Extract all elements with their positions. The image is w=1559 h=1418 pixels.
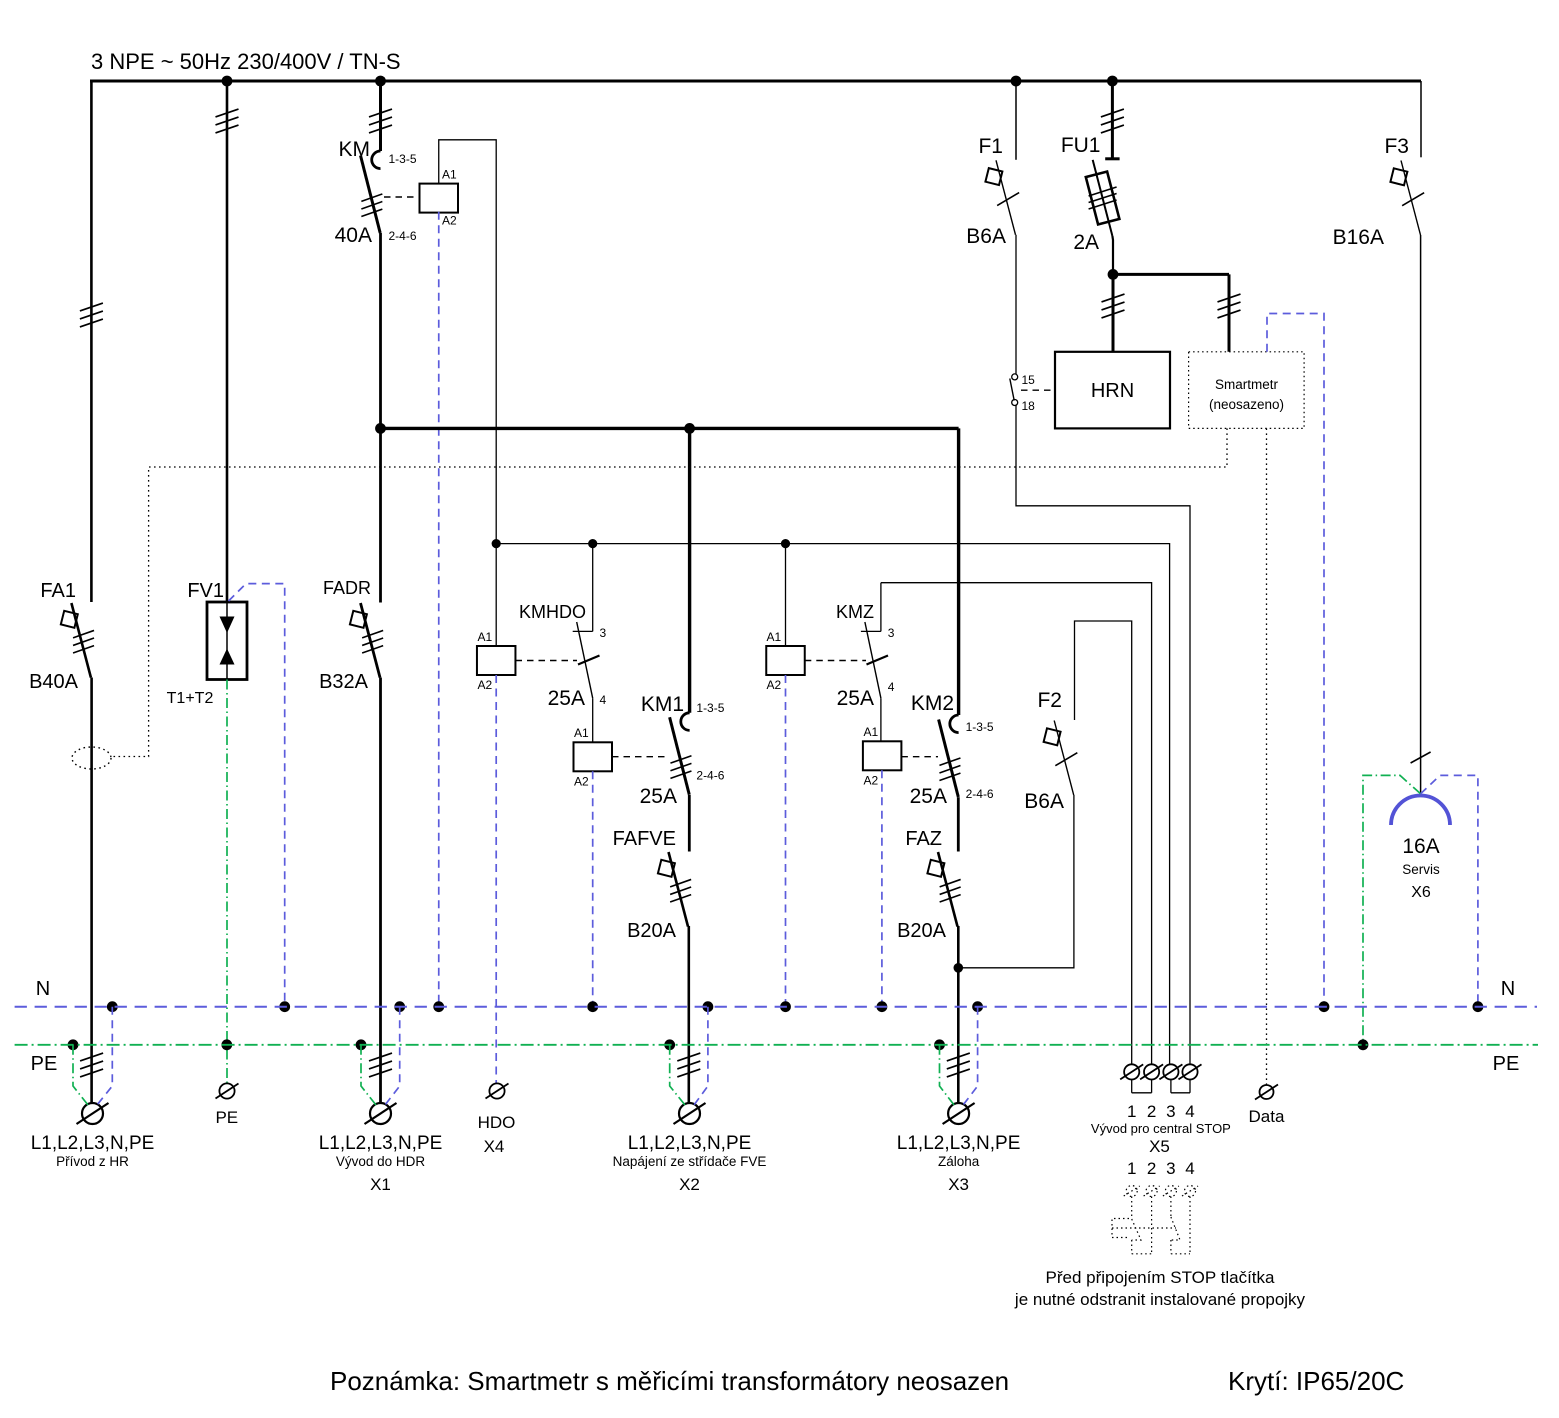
breaker FAZ bbox=[927, 852, 960, 927]
svg-text:PE: PE bbox=[215, 1108, 238, 1127]
svg-text:2-4-6: 2-4-6 bbox=[966, 787, 994, 801]
svg-text:X6: X6 bbox=[1411, 884, 1431, 901]
wire N/PE drops to X2 bbox=[664, 1001, 713, 1105]
svg-text:X1: X1 bbox=[370, 1175, 391, 1194]
label 2-4-6 (KM2) bbox=[966, 787, 994, 801]
label L1,L2,L3,N,PE (input) bbox=[31, 1133, 155, 1154]
label FAFVE bbox=[613, 828, 676, 850]
wire F1 feed bbox=[1015, 81, 1017, 160]
svg-text:FV1: FV1 bbox=[187, 580, 224, 602]
wire KM lower / FADR feed bbox=[379, 233, 382, 603]
svg-text:KMHDO: KMHDO bbox=[519, 602, 586, 622]
label FU1 bbox=[1061, 134, 1101, 157]
svg-text:B6A: B6A bbox=[1024, 790, 1064, 813]
label 4 (KMZ) bbox=[888, 680, 895, 694]
svg-text:16A: 16A bbox=[1402, 835, 1439, 858]
wire FU1 feed bbox=[1101, 81, 1124, 159]
breaker FADR bbox=[350, 603, 383, 678]
node FV1 N junction bbox=[279, 1001, 290, 1012]
contactor KM1 main contact bbox=[670, 713, 692, 795]
label X6 bbox=[1411, 884, 1431, 901]
svg-text:N: N bbox=[36, 978, 50, 1000]
svg-text:Napájení ze střídače FVE: Napájení ze střídače FVE bbox=[613, 1154, 767, 1169]
svg-text:F3: F3 bbox=[1384, 135, 1409, 158]
label X4 bbox=[484, 1137, 505, 1156]
svg-text:Záloha: Záloha bbox=[938, 1154, 980, 1169]
label F3 bbox=[1384, 135, 1409, 158]
coil KM bbox=[420, 184, 459, 213]
svg-text:X2: X2 bbox=[679, 1175, 700, 1194]
bus N (dashed) bbox=[15, 1006, 1537, 1008]
wire HRN/Smartmetr feeds bbox=[1102, 274, 1241, 351]
wire FADR lower bbox=[369, 678, 392, 1104]
svg-text:Před připojením STOP tlačítka: Před připojením STOP tlačítka bbox=[1046, 1268, 1276, 1287]
wire Smartmetr N link bbox=[1267, 314, 1324, 1007]
svg-text:HDO: HDO bbox=[478, 1113, 516, 1132]
svg-text:1-3-5: 1-3-5 bbox=[966, 720, 994, 734]
svg-text:L1,L2,L3,N,PE: L1,L2,L3,N,PE bbox=[319, 1133, 443, 1154]
node KM2 A2 N junction bbox=[877, 1001, 888, 1012]
svg-text:Přívod z HR: Přívod z HR bbox=[56, 1154, 129, 1169]
current transformer sense ellipse bbox=[72, 747, 111, 769]
node junction KM branch bbox=[375, 76, 386, 87]
wire KMZ pin3 feed bbox=[881, 583, 1152, 1064]
node FAZ-F2 junction bbox=[954, 963, 964, 973]
svg-text:F2: F2 bbox=[1037, 689, 1062, 712]
coil KMHDO bbox=[477, 646, 516, 675]
pushbutton STOP (dotted, neosazeno) bbox=[1112, 1186, 1198, 1254]
label FADR bbox=[323, 578, 371, 598]
terminal PE bbox=[216, 1083, 239, 1098]
svg-text:B20A: B20A bbox=[627, 920, 677, 942]
node KM A2 N junction bbox=[433, 1001, 444, 1012]
label KM2 bbox=[911, 692, 954, 715]
label Servis bbox=[1402, 862, 1440, 877]
wire control bus A1 bbox=[496, 544, 1169, 1064]
svg-text:Vývod pro central STOP: Vývod pro central STOP bbox=[1091, 1121, 1231, 1136]
svg-text:A2: A2 bbox=[574, 775, 589, 789]
svg-text:Vývod do HDR: Vývod do HDR bbox=[336, 1154, 426, 1169]
contactor KM main contact bbox=[361, 151, 383, 233]
node junction F1 branch bbox=[1011, 76, 1022, 87]
terminal X5-3 bbox=[1159, 1064, 1182, 1079]
svg-text:25A: 25A bbox=[640, 785, 677, 808]
terminal X2 circle bbox=[674, 1103, 706, 1124]
mech link HRN bbox=[1021, 389, 1055, 391]
svg-text:A1: A1 bbox=[442, 168, 457, 182]
label KM bbox=[339, 138, 371, 161]
svg-text:(neosazeno): (neosazeno) bbox=[1209, 397, 1284, 412]
contact KMHDO aux bbox=[573, 544, 593, 743]
wire top supply bus bbox=[90, 81, 1421, 602]
svg-text:2-4-6: 2-4-6 bbox=[696, 769, 724, 783]
label Vývod pro central STOP bbox=[1091, 1121, 1231, 1136]
wire F2 lower bbox=[958, 795, 1074, 968]
wire CT sense loop (dotted) bbox=[111, 428, 1227, 756]
mech link KMZ bbox=[805, 656, 888, 665]
terminal X5-1 bbox=[1120, 1064, 1143, 1079]
label HDO bbox=[478, 1113, 516, 1132]
socket outlet X6 bbox=[1391, 796, 1450, 826]
terminal X-in L1,L2,L3,N,PE bbox=[77, 1103, 109, 1124]
breaker F3 bbox=[1390, 161, 1424, 236]
contactor KM2 main contact bbox=[939, 715, 961, 797]
node KM1 A2 N junction bbox=[587, 1001, 598, 1012]
node socket N junction bbox=[1473, 1001, 1484, 1012]
svg-text:B6A: B6A bbox=[966, 225, 1006, 248]
svg-text:B32A: B32A bbox=[319, 671, 369, 693]
label X1 bbox=[370, 1175, 391, 1194]
label B6A (F1) bbox=[966, 225, 1006, 248]
label 16A bbox=[1402, 835, 1439, 858]
svg-text:25A: 25A bbox=[837, 687, 874, 710]
label A2 (KM2) bbox=[864, 774, 879, 788]
label 1-3-5 (KM) bbox=[389, 152, 417, 166]
wire F1 mid bbox=[1015, 235, 1017, 374]
label 25A (KM2) bbox=[910, 785, 947, 808]
wire FV1 feed bbox=[216, 81, 239, 602]
node junction FU1 branch bbox=[1107, 76, 1118, 87]
terminal X5-2 bbox=[1140, 1064, 1163, 1079]
svg-text:N: N bbox=[1501, 978, 1515, 1000]
label A1 (KM1) bbox=[574, 726, 589, 740]
svg-text:2: 2 bbox=[1147, 1102, 1156, 1121]
mech link KMHDO bbox=[516, 656, 600, 665]
relay contact HRN 15-18 bbox=[1010, 374, 1018, 406]
wire KMZ A2 to N bbox=[785, 675, 787, 1007]
label 3 (KMHDO) bbox=[600, 626, 607, 640]
label 18 bbox=[1022, 399, 1036, 413]
label KMZ bbox=[836, 602, 874, 622]
label L1,L2,L3,N,PE (X3) bbox=[897, 1133, 1021, 1154]
svg-text:FAZ: FAZ bbox=[905, 828, 942, 850]
label B20A (FAZ) bbox=[897, 920, 947, 942]
label (neosazeno) bbox=[1209, 397, 1284, 412]
label X3 bbox=[948, 1175, 969, 1194]
svg-text:1-3-5: 1-3-5 bbox=[696, 701, 724, 715]
label Data bbox=[1249, 1107, 1285, 1126]
label X5 pins 1 2 3 4 (top) bbox=[1127, 1102, 1195, 1121]
svg-text:2A: 2A bbox=[1073, 231, 1099, 254]
bus PE (dash-dot) bbox=[15, 1044, 1538, 1046]
svg-text:4: 4 bbox=[1185, 1159, 1194, 1178]
label 2-4-6 (KM) bbox=[389, 229, 417, 243]
svg-text:1: 1 bbox=[1127, 1159, 1136, 1178]
relay HRN box bbox=[1055, 352, 1170, 429]
svg-text:3: 3 bbox=[1166, 1102, 1175, 1121]
label A1 (KM) bbox=[442, 168, 457, 182]
coil KM2 bbox=[863, 741, 902, 770]
svg-text:3: 3 bbox=[600, 626, 607, 640]
label FA1 bbox=[40, 580, 76, 602]
svg-text:B40A: B40A bbox=[29, 671, 79, 693]
wire X5 jumpers bbox=[1132, 1080, 1190, 1093]
svg-text:PE: PE bbox=[31, 1053, 58, 1075]
wire N/PE drops to input terminal bbox=[68, 1001, 118, 1105]
label PE right bbox=[1493, 1053, 1520, 1075]
label A1 (KM2) bbox=[864, 725, 879, 739]
svg-text:3: 3 bbox=[888, 626, 895, 640]
svg-text:Poznámka: Smartmetr s měřicími: Poznámka: Smartmetr s měřicími transform… bbox=[330, 1366, 1009, 1396]
svg-text:25A: 25A bbox=[548, 687, 585, 710]
label A2 (KMHDO) bbox=[478, 678, 493, 692]
terminal Data bbox=[1255, 1085, 1278, 1100]
wire distribution bus bbox=[381, 427, 959, 430]
wire KM coil A1 loop bbox=[439, 140, 496, 544]
svg-text:A1: A1 bbox=[767, 630, 782, 644]
wire socket N link bbox=[1421, 775, 1478, 1006]
label F1 bbox=[978, 135, 1003, 158]
svg-text:2: 2 bbox=[1147, 1159, 1156, 1178]
svg-text:T1+T2: T1+T2 bbox=[167, 690, 214, 707]
label HRN bbox=[1091, 380, 1134, 402]
svg-text:A1: A1 bbox=[478, 630, 493, 644]
wire N/PE drops to X3 bbox=[934, 1001, 983, 1105]
svg-text:FU1: FU1 bbox=[1061, 134, 1101, 157]
label FV1 bbox=[187, 580, 224, 602]
terminal X5-4 bbox=[1179, 1064, 1202, 1079]
label A2 (KMZ) bbox=[767, 678, 782, 692]
node bus-KM1 junction bbox=[684, 423, 695, 434]
label 1-3-5 (KM1) bbox=[696, 701, 724, 715]
label B6A (F2) bbox=[1024, 790, 1064, 813]
svg-text:L1,L2,L3,N,PE: L1,L2,L3,N,PE bbox=[628, 1133, 752, 1154]
node bus-KM junction bbox=[375, 423, 386, 434]
svg-text:HRN: HRN bbox=[1091, 380, 1134, 402]
svg-text:3: 3 bbox=[1166, 1159, 1175, 1178]
svg-text:FA1: FA1 bbox=[40, 580, 76, 602]
svg-text:1: 1 bbox=[1127, 1102, 1136, 1121]
label T1+T2 bbox=[167, 690, 214, 707]
label A1 (KMHDO) bbox=[478, 630, 493, 644]
wire FA1 lower bbox=[80, 678, 103, 1104]
svg-text:KM1: KM1 bbox=[641, 693, 684, 716]
wire KM1 lower bbox=[688, 795, 691, 852]
svg-text:KM: KM bbox=[339, 138, 371, 161]
label 25A (KMHDO) bbox=[548, 687, 585, 710]
svg-text:B16A: B16A bbox=[1333, 226, 1384, 249]
svg-text:40A: 40A bbox=[335, 224, 372, 247]
label F2 bbox=[1037, 689, 1062, 712]
svg-text:4: 4 bbox=[600, 693, 607, 707]
label KMHDO bbox=[519, 602, 586, 622]
label A1 (KMZ) bbox=[767, 630, 782, 644]
mech link KM2 bbox=[901, 756, 938, 758]
svg-text:18: 18 bbox=[1022, 399, 1036, 413]
label B16A bbox=[1333, 226, 1384, 249]
mech link KM bbox=[384, 196, 420, 198]
node junction FV1 branch bbox=[222, 76, 233, 87]
svg-text:F1: F1 bbox=[978, 135, 1003, 158]
svg-text:A2: A2 bbox=[864, 774, 879, 788]
svg-text:A2: A2 bbox=[442, 214, 457, 228]
wire KM1 A2 to N bbox=[592, 771, 594, 1006]
svg-text:X4: X4 bbox=[484, 1137, 505, 1156]
node FV1 PE junction bbox=[221, 1039, 232, 1050]
label X5 bbox=[1149, 1137, 1170, 1156]
terminal X3 circle bbox=[943, 1103, 975, 1124]
surge arrester FV1 bbox=[207, 602, 247, 680]
wire KMHDO A2 to HDO terminal bbox=[495, 675, 497, 1084]
svg-text:L1,L2,L3,N,PE: L1,L2,L3,N,PE bbox=[31, 1133, 155, 1154]
label B32A bbox=[319, 671, 369, 693]
wire KMZ coil feed bbox=[785, 544, 787, 646]
label Napájení ze střídače FVE bbox=[613, 1154, 767, 1169]
meter Smartmetr box (dotted) bbox=[1189, 352, 1305, 429]
wire F3 lower bbox=[1411, 235, 1431, 794]
svg-text:15: 15 bbox=[1022, 373, 1036, 387]
breaker F2 bbox=[1044, 721, 1078, 796]
label 2A bbox=[1073, 231, 1099, 254]
svg-text:PE: PE bbox=[1493, 1053, 1520, 1075]
label Záloha bbox=[938, 1154, 980, 1169]
svg-text:1-3-5: 1-3-5 bbox=[389, 152, 417, 166]
note Krytí bbox=[1228, 1366, 1404, 1396]
wire FAFVE lower bbox=[677, 926, 700, 1103]
svg-text:Data: Data bbox=[1249, 1107, 1285, 1126]
terminal X1 circle bbox=[365, 1103, 397, 1124]
label Přívod z HR bbox=[56, 1154, 129, 1169]
net label 3 NPE ~ 50Hz 230/400V / TN-S bbox=[91, 49, 401, 74]
svg-text:4: 4 bbox=[888, 680, 895, 694]
label L1,L2,L3,N,PE (X2) bbox=[628, 1133, 752, 1154]
node KMZ A2 N junction bbox=[780, 1001, 791, 1012]
wire FA1 phase marker bbox=[80, 303, 103, 327]
svg-text:4: 4 bbox=[1185, 1102, 1194, 1121]
node control bus KMZ-coil tap bbox=[781, 539, 790, 548]
label KM1 bbox=[641, 693, 684, 716]
label N right bbox=[1501, 978, 1515, 1000]
svg-text:Servis: Servis bbox=[1402, 862, 1440, 877]
wire KM2 A2 to N bbox=[881, 770, 883, 1006]
node control bus KMHDO-contact tap bbox=[588, 539, 597, 548]
wire FV1 earth link bbox=[226, 680, 228, 1084]
note Poznámka bbox=[330, 1366, 1009, 1396]
svg-text:A1: A1 bbox=[574, 726, 589, 740]
node FU1 output junction bbox=[1108, 269, 1119, 280]
label 25A (KM1) bbox=[640, 785, 677, 808]
label B20A (FAFVE) bbox=[627, 920, 677, 942]
label 25A (KMZ) bbox=[837, 687, 874, 710]
breaker F1 bbox=[985, 160, 1019, 235]
svg-text:Smartmetr: Smartmetr bbox=[1215, 377, 1279, 392]
label 2-4-6 (KM1) bbox=[696, 769, 724, 783]
note STOP line2 bbox=[1014, 1290, 1306, 1309]
wire socket PE link bbox=[1363, 775, 1421, 1044]
svg-text:B20A: B20A bbox=[897, 920, 947, 942]
coil KMZ bbox=[766, 646, 805, 675]
label Smartmetr bbox=[1215, 377, 1279, 392]
wire KM coil A2 to N bbox=[438, 212, 440, 1007]
label 3 (KMZ) bbox=[888, 626, 895, 640]
label 15 bbox=[1022, 373, 1036, 387]
label L1,L2,L3,N,PE (X1) bbox=[319, 1133, 443, 1154]
breaker FA1 bbox=[61, 603, 94, 678]
label FAZ bbox=[905, 828, 942, 850]
wire KM2 feed bbox=[957, 428, 960, 715]
wire FAZ lower bbox=[947, 926, 970, 1103]
label B40A bbox=[29, 671, 79, 693]
wire FV1 neutral link bbox=[229, 584, 285, 1007]
wire F1 to X5-4 bbox=[1016, 406, 1190, 1064]
contact KMZ aux bbox=[861, 583, 881, 742]
breaker FAFVE bbox=[658, 852, 691, 927]
label X2 bbox=[679, 1175, 700, 1194]
svg-text:25A: 25A bbox=[910, 785, 947, 808]
label X5 pins 1 2 3 4 (bottom) bbox=[1127, 1159, 1195, 1178]
fuse FU1 bbox=[1086, 159, 1120, 275]
svg-text:KMZ: KMZ bbox=[836, 602, 874, 622]
coil KM1 bbox=[574, 742, 613, 771]
svg-text:X3: X3 bbox=[948, 1175, 969, 1194]
label A2 (KM1) bbox=[574, 775, 589, 789]
svg-text:2-4-6: 2-4-6 bbox=[389, 229, 417, 243]
wire F2 loop top bbox=[1075, 621, 1132, 1064]
label 4 (KMHDO) bbox=[600, 693, 607, 707]
svg-text:Krytí: IP65/20C: Krytí: IP65/20C bbox=[1228, 1366, 1404, 1396]
node control bus KMHDO-coil tap bbox=[492, 539, 501, 548]
label PE left bbox=[31, 1053, 58, 1075]
svg-text:FAFVE: FAFVE bbox=[613, 828, 676, 850]
label 40A bbox=[335, 224, 372, 247]
mech link KM1 bbox=[612, 756, 666, 758]
svg-text:L1,L2,L3,N,PE: L1,L2,L3,N,PE bbox=[897, 1133, 1021, 1154]
wire N/PE drops to X1 bbox=[356, 1001, 406, 1105]
node socket PE junction bbox=[1358, 1039, 1369, 1050]
wire KM1 feed bbox=[688, 428, 691, 712]
label N left bbox=[36, 978, 50, 1000]
svg-text:KM2: KM2 bbox=[911, 692, 954, 715]
svg-text:3 NPE ~ 50Hz 230/400V / TN-S: 3 NPE ~ 50Hz 230/400V / TN-S bbox=[91, 49, 401, 74]
label PE terminal bbox=[215, 1108, 238, 1127]
svg-text:FADR: FADR bbox=[323, 578, 371, 598]
svg-text:A1: A1 bbox=[864, 725, 879, 739]
wire KM feed bbox=[369, 81, 392, 151]
node Smartmetr N junction bbox=[1319, 1001, 1330, 1012]
label 1-3-5 (KM2) bbox=[966, 720, 994, 734]
svg-text:X5: X5 bbox=[1149, 1137, 1170, 1156]
wire KM2 lower bbox=[957, 797, 960, 851]
terminal HDO X4 bbox=[486, 1083, 509, 1098]
wire Smartmetr data line (dotted) bbox=[1266, 428, 1268, 1084]
wire KMHDO coil feed bbox=[495, 544, 497, 646]
note STOP line1 bbox=[1046, 1268, 1276, 1287]
label Vývod do HDR bbox=[336, 1154, 426, 1169]
label A2 (KM) bbox=[442, 214, 457, 228]
svg-text:je nutné odstranit instalované: je nutné odstranit instalované propojky bbox=[1014, 1290, 1306, 1309]
svg-text:A2: A2 bbox=[767, 678, 782, 692]
svg-text:A2: A2 bbox=[478, 678, 493, 692]
